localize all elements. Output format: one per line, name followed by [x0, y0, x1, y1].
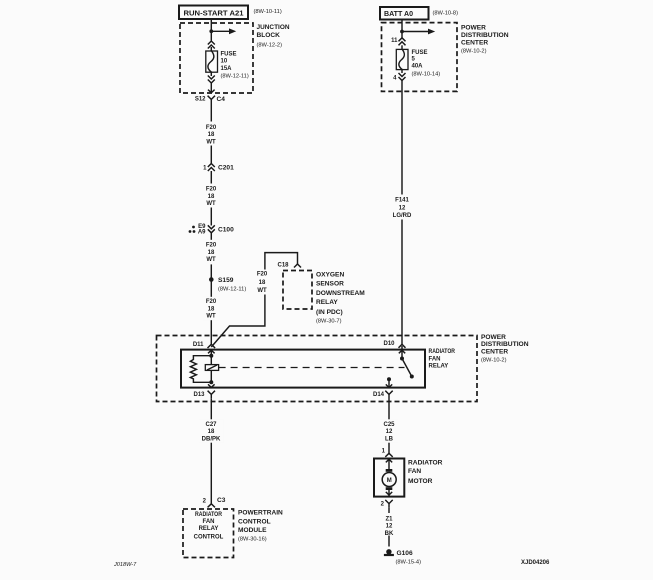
connector C4 with splice label S12	[195, 96, 225, 104]
radiator fan relay solid box	[181, 349, 456, 387]
svg-text:WT: WT	[206, 314, 216, 320]
node RUN-START A21 header box	[179, 6, 282, 20]
svg-text:RADIATOR: RADIATOR	[195, 512, 223, 518]
node junction dot with branch arrow	[209, 28, 236, 34]
radiator fan motor box	[374, 459, 443, 497]
fuse cavity 11 chevrons	[391, 38, 405, 46]
wire from BATT A0 into PDC	[401, 19, 403, 37]
svg-text:10: 10	[221, 58, 228, 64]
wire label F20 18 WT	[203, 184, 220, 208]
oxygen sensor downstream relay dashed box	[283, 271, 365, 325]
svg-text:MODULE: MODULE	[238, 527, 267, 534]
wire branch to oxygen sensor relay	[211, 253, 297, 347]
svg-text:LG/RD: LG/RD	[393, 213, 412, 219]
svg-text:F20: F20	[206, 299, 217, 305]
svg-text:BK: BK	[385, 531, 394, 537]
svg-text:WT: WT	[206, 201, 216, 207]
svg-text:WT: WT	[206, 139, 216, 145]
connector C100 pins E9/A9	[189, 224, 234, 235]
ground G106	[384, 549, 421, 565]
svg-text:C27: C27	[205, 422, 217, 428]
svg-text:JUNCTION: JUNCTION	[257, 24, 290, 31]
svg-text:Z1: Z1	[385, 516, 393, 522]
wire label Z1 12 BK	[381, 513, 397, 537]
node PDC junction dot with branch arrow	[400, 29, 435, 35]
svg-text:XJD04206: XJD04206	[521, 560, 550, 566]
connector C201 pin 1	[203, 164, 234, 172]
svg-text:D11: D11	[193, 342, 204, 348]
svg-text:11: 11	[391, 38, 398, 44]
svg-text:FUSE: FUSE	[412, 50, 428, 56]
power distribution center dashed box (relay)	[157, 334, 529, 402]
motor connector pin 2	[381, 500, 393, 508]
resistor (coil suppression)	[190, 356, 211, 383]
svg-text:F20: F20	[206, 187, 217, 193]
svg-text:RELAY: RELAY	[199, 526, 219, 532]
svg-text:DB/PK: DB/PK	[202, 437, 221, 443]
svg-text:18: 18	[208, 250, 215, 256]
svg-text:CENTER: CENTER	[461, 39, 488, 46]
junction block dashed box	[180, 23, 290, 93]
svg-text:DISTRIBUTION: DISTRIBUTION	[461, 32, 509, 39]
wire label C27 18 DB/PK	[199, 419, 224, 442]
svg-text:POWER: POWER	[461, 25, 486, 32]
svg-text:LB: LB	[385, 437, 394, 443]
wire D13 to C3	[210, 399, 212, 504]
motor connector pin 1	[382, 448, 393, 457]
connector chevrons below fuse (junction block)	[208, 72, 215, 83]
svg-text:(8W-15-4): (8W-15-4)	[396, 560, 422, 566]
svg-text:RUN-START A21: RUN-START A21	[184, 8, 244, 17]
svg-text:CONTROL: CONTROL	[238, 519, 271, 526]
svg-text:FAN: FAN	[429, 356, 441, 362]
svg-text:BATT A0: BATT A0	[384, 9, 413, 18]
wire label F20 18 WT (branch)	[255, 270, 271, 295]
svg-text:40A: 40A	[412, 64, 424, 70]
wire label F141 12 LG/RD	[390, 195, 414, 220]
svg-text:15A: 15A	[221, 66, 233, 72]
svg-text:(8W-12-11): (8W-12-11)	[218, 287, 246, 293]
svg-text:(8W-12-2): (8W-12-2)	[257, 43, 283, 49]
powertrain control module dashed box	[183, 509, 283, 558]
svg-text:(IN PDC): (IN PDC)	[316, 309, 343, 316]
svg-text:D13: D13	[193, 392, 205, 398]
wire motor to ground	[388, 508, 390, 547]
wire C100 to S159	[210, 233, 212, 278]
svg-text:M: M	[387, 478, 392, 484]
svg-text:(8W-10-14): (8W-10-14)	[412, 71, 441, 77]
svg-text:C100: C100	[218, 227, 234, 234]
svg-text:F20: F20	[206, 243, 217, 249]
svg-text:BLOCK: BLOCK	[257, 32, 281, 39]
wire from RUN-START A21 into junction block	[210, 19, 212, 41]
svg-text:S159: S159	[218, 277, 234, 284]
svg-text:CENTER: CENTER	[481, 349, 508, 356]
svg-text:D10: D10	[383, 341, 395, 347]
svg-text:F20: F20	[257, 271, 268, 277]
svg-text:DISTRIBUTION: DISTRIBUTION	[481, 341, 529, 348]
svg-text:C25: C25	[383, 422, 395, 428]
svg-text:FAN: FAN	[203, 519, 215, 525]
splice S159	[209, 277, 246, 293]
svg-text:18: 18	[208, 132, 215, 138]
fuse F5 (PDC)	[396, 45, 440, 77]
wire exiting junction block with arrowhead	[208, 83, 215, 93]
relay switch contacts	[387, 357, 414, 382]
wire C201 to C100	[210, 171, 212, 226]
pin D10	[383, 341, 405, 359]
svg-text:(8W-12-11): (8W-12-11)	[221, 74, 249, 80]
wire label C25 12 LB	[380, 419, 398, 442]
svg-text:MOTOR: MOTOR	[408, 478, 433, 485]
connector chevrons above fuse (junction block)	[208, 41, 215, 49]
svg-text:SENSOR: SENSOR	[316, 281, 344, 288]
fuse cavity 4 chevrons	[393, 70, 405, 82]
power distribution center dashed box (top)	[382, 23, 509, 92]
svg-text:F141: F141	[395, 198, 409, 204]
svg-text:FUSE: FUSE	[221, 52, 237, 58]
svg-text:WT: WT	[206, 257, 216, 263]
svg-text:18: 18	[208, 429, 215, 435]
svg-text:OXYGEN: OXYGEN	[316, 272, 344, 279]
relay coil	[205, 365, 218, 371]
svg-text:C3: C3	[217, 497, 226, 504]
svg-text:12: 12	[399, 205, 406, 211]
wire label F20 18 WT	[203, 122, 220, 146]
wire S159 to D11	[210, 282, 212, 345]
svg-text:WT: WT	[257, 288, 267, 294]
svg-text:(8W-10-8): (8W-10-8)	[433, 11, 459, 17]
svg-text:C18: C18	[277, 263, 289, 269]
connector C3 pin 2	[203, 497, 226, 507]
svg-text:C201: C201	[218, 165, 234, 172]
svg-text:(8W-10-11): (8W-10-11)	[254, 9, 282, 15]
svg-text:(8W-10-2): (8W-10-2)	[461, 48, 487, 54]
svg-text:RELAY: RELAY	[429, 363, 449, 369]
svg-text:RELAY: RELAY	[316, 299, 338, 306]
svg-text:CONTROL: CONTROL	[194, 534, 224, 540]
wire label F20 18 WT	[203, 240, 220, 265]
pin D11	[193, 342, 215, 353]
node BATT A0 header box	[380, 7, 458, 20]
svg-text:A9: A9	[198, 229, 206, 235]
svg-text:(8W-30-16): (8W-30-16)	[238, 536, 267, 542]
connector C18	[277, 263, 301, 269]
wire PDC to D10	[401, 81, 403, 345]
pin D13	[193, 384, 215, 399]
wire C4 to C201	[210, 104, 212, 164]
svg-text:DOWNSTREAM: DOWNSTREAM	[316, 290, 365, 297]
svg-text:18: 18	[259, 280, 266, 286]
wire D14 to radiator fan motor	[388, 399, 390, 453]
svg-text:RADIATOR: RADIATOR	[408, 459, 443, 466]
svg-text:F20: F20	[206, 125, 217, 131]
svg-text:G106: G106	[397, 550, 413, 557]
motor M symbol	[382, 459, 396, 497]
svg-text:(8W-30-7): (8W-30-7)	[316, 319, 342, 325]
svg-text:RADIATOR: RADIATOR	[429, 349, 456, 355]
wire label F20 18 WT	[203, 297, 220, 320]
svg-text:S12: S12	[195, 97, 206, 103]
svg-text:D14: D14	[373, 392, 385, 398]
svg-text:POWERTRAIN: POWERTRAIN	[238, 510, 283, 517]
svg-text:J018W-7: J018W-7	[113, 562, 137, 568]
fuse F10 (junction block)	[206, 47, 249, 80]
svg-text:(8W-10-2): (8W-10-2)	[481, 357, 507, 363]
relay coil branch with resistor	[190, 350, 218, 384]
svg-text:18: 18	[208, 194, 215, 200]
pin D14	[373, 379, 393, 399]
svg-text:POWER: POWER	[481, 334, 506, 341]
svg-text:12: 12	[386, 523, 393, 529]
svg-text:FAN: FAN	[408, 468, 421, 475]
svg-text:12: 12	[386, 429, 393, 435]
svg-text:C4: C4	[217, 96, 226, 103]
relay mechanical dashed link	[219, 367, 405, 369]
svg-text:18: 18	[208, 307, 215, 313]
